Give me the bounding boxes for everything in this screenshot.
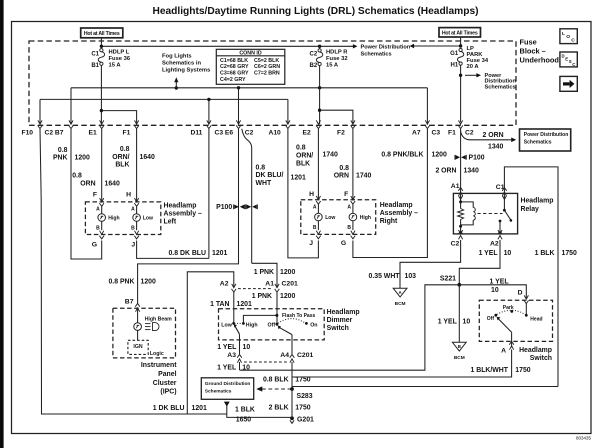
svg-text:Lighting Systems: Lighting Systems [162,67,210,73]
svg-text:A: A [96,206,100,212]
relay coil inductor leg [461,202,474,208]
svg-text:1 PNK: 1 PNK [254,269,274,276]
svg-text:0.35 WHT: 0.35 WHT [368,273,400,280]
pin C1 relay [502,192,506,196]
pin G right headlamp [351,231,355,235]
svg-text:1201: 1201 [291,175,306,182]
wire S221 to switch D [459,285,526,299]
conn id box [216,49,284,84]
svg-text:0.8: 0.8 [120,146,130,153]
fuse F32 HDLP R [318,49,321,52]
svg-text:D: D [518,290,523,297]
svg-text:G: G [341,240,346,247]
svg-text:0.8: 0.8 [72,173,82,180]
connector C201 dashed line (A3-A4) [244,361,287,363]
svg-text:1 PNK: 1 PNK [252,293,272,300]
svg-text:A2: A2 [220,281,229,288]
wire bus1 drop A7 [426,88,428,124]
wire B7 to indicator [137,308,139,323]
svg-text:A: A [501,347,506,354]
relay A1 entry arrow [460,193,462,202]
dimmer arm left (low-a3) [235,326,240,334]
svg-text:Underhood: Underhood [520,56,560,65]
stub hot box right [460,37,462,46]
junction dot fuse32 bus1 [319,87,321,89]
ipc high beam indicator lamp [134,323,142,331]
svg-text:15 A: 15 A [109,63,122,69]
dimmer low contact [232,322,235,325]
wire A2 into dimmer [233,292,235,324]
headlamp dimmer switch dashed box [219,309,325,340]
wire A1 into dimmer [276,292,278,325]
svg-text:L: L [562,31,565,37]
svg-text:IGN: IGN [133,344,142,350]
svg-text:Instrument: Instrument [141,362,177,369]
svg-text:C2: C2 [451,241,460,248]
pin A4 dimmer [290,359,294,363]
dimmer flash dotted arc [278,319,306,324]
svg-text:P100: P100 [469,155,485,162]
svg-text:2 ORN: 2 ORN [435,168,456,175]
svg-text:1650: 1650 [236,417,251,424]
wire C3E6 0.8 PNK 1200 to B7 [138,129,239,304]
svg-text:On: On [310,322,317,328]
svg-text:C2: C2 [465,129,474,136]
junction dot fuse34 branch [459,74,462,77]
connector P100 (pair) [234,205,239,209]
svg-text:C6=2 GRN: C6=2 GRN [254,64,280,70]
svg-text:Dimmer: Dimmer [327,317,353,324]
svg-text:C1: C1 [91,51,99,57]
svg-text:A: A [131,206,135,212]
svg-text:C7=2 BRN: C7=2 BRN [254,71,280,77]
wire dimmer low pivot to A3 [239,334,241,354]
svg-text:0.8 PNK/BLK: 0.8 PNK/BLK [381,151,423,158]
junction dot bus1 fuse32 [318,86,321,89]
switch arm [498,319,511,333]
fuse F34 LP PARK [459,48,462,51]
wire C2B7 0.8 PNK 1200 [71,129,102,259]
pin G left headlamp [100,231,104,235]
svg-text:Headlamp: Headlamp [380,202,413,209]
svg-text:Schematics: Schematics [361,51,392,57]
junction dot bus2 D11 [207,98,210,101]
wire A4 down to S283 [291,362,293,389]
svg-text:1200: 1200 [75,155,90,162]
svg-text:Ground Distribution: Ground Distribution [205,381,251,387]
svg-text:F1: F1 [123,129,131,136]
relay switch arm [504,210,511,220]
bcm triangle B [452,342,466,351]
svg-text:C5=2 BLK: C5=2 BLK [254,58,279,64]
svg-text:10: 10 [504,250,512,257]
wire bus2 drop A10 [287,99,289,124]
relay coil exit [460,226,462,234]
headlamp relay box [453,193,517,234]
pin H left headlamp [135,198,139,202]
svg-text:B7: B7 [125,299,134,306]
svg-text:803435: 803435 [576,435,592,440]
wire E2 0.8 ORN/BLK 1740 [317,129,319,200]
pin F left headlamp [100,198,104,202]
svg-text:BLK: BLK [115,162,129,169]
svg-text:F10: F10 [22,129,34,136]
pin F10 fuse block [38,120,42,124]
svg-text:Low: Low [325,215,335,221]
wire fuse36 branch F1 [101,111,136,125]
svg-text:Low: Low [221,322,232,328]
svg-text:G1: G1 [450,51,459,57]
pin D headlamp switch [524,295,528,299]
svg-text:1200: 1200 [280,269,295,276]
svg-text:Flash To Pass: Flash To Pass [282,313,315,319]
svg-text:Hot at All Times: Hot at All Times [84,31,120,37]
svg-text:20 A: 20 A [467,64,480,70]
svg-text:PNK: PNK [53,155,68,162]
lamp low beam left [136,206,138,214]
junction dot fuse34 top [459,44,462,47]
relay A2 contact [499,220,502,223]
svg-text:1 YEL: 1 YEL [479,250,498,257]
svg-text:1200: 1200 [432,151,447,158]
svg-text:Cluster: Cluster [153,380,177,387]
svg-text:ORN/: ORN/ [112,154,129,161]
svg-text:Switch: Switch [327,325,349,332]
svg-text:Power Distribution: Power Distribution [524,132,568,138]
pin J right headlamp [316,231,320,235]
dimmer on contact [305,322,308,325]
relay mech link dashed [478,213,503,215]
svg-text:A10: A10 [269,129,282,136]
junction dot fog arrow [175,86,178,89]
wire fuse32 branch F2 [320,110,353,124]
wire A7 0.8 PNK/BLK 1200 to right G [353,129,428,258]
svg-text:ORN: ORN [80,181,95,188]
svg-text:HDLP R: HDLP R [326,49,348,55]
svg-text:B: B [458,344,461,349]
wire C2 to A1 dimmer [252,263,277,287]
icon desc box [560,52,577,67]
lamp high beam left [101,206,103,214]
svg-text:10: 10 [463,319,471,326]
svg-text:10: 10 [243,344,251,351]
connector P100 (LP wire) [456,155,461,159]
arrow from power distribution (left) [413,45,416,47]
hot at all times label right [439,28,481,37]
junction dot fuse32 branch F2 [318,109,321,112]
svg-text:F1: F1 [448,129,456,136]
svg-text:A: A [313,205,317,211]
svg-text:HDLP L: HDLP L [109,49,130,55]
pin F1 fuse block [135,120,139,124]
pin J left headlamp [135,231,139,235]
svg-text:0.8 DK BLU: 0.8 DK BLU [168,250,206,257]
wire relay C1 up and right [504,167,558,387]
power distribution schematics box [520,129,571,151]
svg-text:1201: 1201 [212,250,227,257]
svg-text:1 YEL: 1 YEL [217,365,236,372]
svg-text:1340: 1340 [464,168,479,175]
svg-text:J: J [309,240,313,247]
dimmer high riser to A1 [243,315,277,323]
svg-text:Left: Left [164,218,177,225]
svg-text:F2: F2 [337,129,345,136]
svg-text:Off: Off [268,323,276,329]
svg-text:Fog Lights: Fog Lights [162,54,192,60]
wire left J line [137,241,209,259]
arrow to power distribution (right) [352,45,355,47]
dimmer off contact [276,323,279,326]
svg-text:10: 10 [242,365,250,372]
wire fuse32 down [319,66,321,125]
svg-text:H: H [309,191,314,198]
svg-text:F: F [344,191,348,198]
svg-text:Block –: Block – [520,47,546,56]
switch park contact [510,310,513,313]
pin B7 IPC [136,308,140,312]
pin F2 fuse block [351,120,355,124]
svg-text:C4=2 GRY: C4=2 GRY [220,77,246,83]
wire A10 to right J [288,129,319,258]
wire bus1 drop C2B7 [70,88,72,124]
svg-text:Schematics: Schematics [485,85,516,91]
wire hot bus right [414,45,461,47]
svg-text:High Beam: High Beam [145,317,172,323]
svg-text:ORN/: ORN/ [296,153,313,160]
svg-text:Schematics in: Schematics in [162,61,201,67]
svg-text:Relay: Relay [521,206,540,213]
svg-text:Low: Low [143,215,153,221]
svg-text:0.8: 0.8 [339,165,349,172]
arrow 1650 from IPC [224,402,230,407]
wire E1 0.8 ORN 1640 [101,129,103,202]
wire F2 0.8 ORN 1740 [352,129,354,200]
lamp high beam right [352,204,354,213]
pin A2 relay [498,236,502,240]
svg-text:Fuse: Fuse [520,38,537,47]
pin E2 fuse block [316,120,320,124]
svg-text:Switch: Switch [530,355,552,362]
pin F right headlamp [351,196,355,200]
svg-text:B1: B1 [91,63,99,69]
svg-text:1750: 1750 [295,405,310,412]
wire bus to fuse32 [319,46,321,48]
wire F10 1 DK BLU 1201 [40,129,227,414]
connector C201 dashed line (A2-A1) [238,288,272,290]
svg-text:C3 E6: C3 E6 [215,129,234,136]
svg-text:Off: Off [487,316,495,322]
svg-text:Assembly –: Assembly – [380,210,418,217]
pin A3 dimmer [237,359,241,363]
pin E1 fuse block [100,120,104,124]
svg-text:1740: 1740 [323,152,338,159]
wire bus2 drop D11 [208,99,210,124]
hot at all times label left [81,28,123,38]
ipc high beam icon [145,323,151,325]
svg-text:Headlamp: Headlamp [519,347,552,354]
fuse block underhood dashed box [29,41,516,125]
pin H right headlamp [316,196,320,200]
svg-text:A4: A4 [280,352,289,359]
junction dot fuse36 branch F1 [100,109,103,112]
svg-text:0.8 PNK: 0.8 PNK [108,279,134,286]
svg-text:1 YEL: 1 YEL [438,319,457,326]
wire fuse36 down [100,65,102,124]
pin A10 fuse block [286,120,290,124]
svg-text:WHT: WHT [256,180,272,187]
splice S221 [457,283,461,287]
svg-text:BCM: BCM [454,355,465,361]
svg-text:BCM: BCM [395,301,406,307]
svg-text:103: 103 [405,273,417,280]
svg-text:Headlamp: Headlamp [164,203,197,210]
left scan edge bar [0,0,4,448]
wire S283 to G201 [291,389,293,418]
svg-text:A: A [347,205,351,211]
svg-text:G: G [92,241,97,248]
wire D11 0.8 DK BLU 1201 [208,129,210,259]
svg-text:1 TAN: 1 TAN [210,301,229,308]
svg-text:C201: C201 [282,281,298,288]
pin C2B7 fuse block [69,120,73,124]
switch head contact [525,314,528,317]
wire conn C3E6 from bus1 [238,88,240,124]
svg-text:O: O [566,34,570,40]
ipc dashed box [113,308,176,358]
svg-text:ORN: ORN [334,173,349,180]
svg-text:A1: A1 [451,183,460,190]
svg-text:1640: 1640 [105,181,120,188]
svg-text:C201: C201 [297,352,313,359]
wire 1 BLK 1650 line [227,406,292,417]
wire bus2 [40,98,288,100]
svg-text:Fuse 32: Fuse 32 [326,56,348,62]
svg-text:P100: P100 [216,204,232,211]
svg-text:Hot at All Times: Hot at All Times [442,31,478,37]
svg-text:1750: 1750 [515,367,530,374]
svg-text:Schematics: Schematics [524,139,552,145]
headlamp switch dashed box [479,300,552,341]
wire blk line relay C1 to S283 [292,386,558,388]
svg-text:10: 10 [491,287,499,294]
svg-text:High: High [108,215,119,221]
arrow fog lights [175,82,177,89]
pin C2LP fuse block [459,120,463,124]
wire D into switch [525,303,527,316]
svg-text:(IPC): (IPC) [160,389,176,396]
arrow to power distribution schematics (fuse34) [465,74,478,76]
lamp low beam right [317,204,319,213]
junction dot bus1 conn [237,86,240,89]
svg-text:1 BLK: 1 BLK [535,250,555,257]
svg-text:1201: 1201 [192,405,207,412]
fuse F36 HDLP L [100,49,103,52]
svg-text:1 BLK: 1 BLK [235,407,255,414]
dimmer high contact [242,322,245,325]
wire fuse34 down [460,65,462,122]
svg-text:BLK: BLK [296,160,310,167]
svg-text:1340: 1340 [488,144,503,151]
svg-text:E1: E1 [89,129,97,136]
wire A2 dimmer feed [187,272,234,414]
svg-text:B: B [313,225,317,231]
svg-text:C: C [572,62,575,67]
svg-text:1200: 1200 [280,293,295,300]
junction dot fuse36 top [100,45,103,48]
svg-text:E2: E2 [303,129,311,136]
svg-text:1740: 1740 [356,173,371,180]
svg-text:15 A: 15 A [326,63,339,69]
pin C3E6 fuse block [236,120,240,124]
svg-text:C3=68 GRY: C3=68 GRY [220,71,249,77]
icon loc box [560,29,577,44]
svg-text:Fuse 36: Fuse 36 [109,56,131,62]
wire relay A2 to S221 [459,240,500,285]
relay coil resistor leg [459,200,462,203]
svg-text:Headlights/Daytime Running Lig: Headlights/Daytime Running Lights (DRL) … [152,6,478,17]
svg-text:C2: C2 [310,51,318,57]
splice S283 [290,387,294,391]
wire C2 LP pin down [460,129,462,194]
svg-text:C: C [571,37,575,43]
svg-text:0.8 BLK: 0.8 BLK [263,376,289,383]
svg-text:B: B [347,225,351,231]
pin A7 fuse block [425,120,429,124]
stub hot box left [100,38,102,47]
svg-text:Right: Right [380,218,398,225]
svg-text:DK BLU/: DK BLU/ [256,172,284,179]
svg-text:1200: 1200 [141,279,156,286]
svg-text:J: J [131,241,135,248]
svg-text:CONN ID: CONN ID [239,51,262,57]
svg-text:0.8: 0.8 [256,164,266,171]
pin A1 relay [459,192,463,196]
wire F1 0.8 ORN/BLK 1640 [136,129,138,202]
svg-text:0.8: 0.8 [58,147,68,154]
wire dimmer pivot to A4 [291,335,293,355]
svg-text:F: F [93,191,97,198]
svg-text:2 ORN: 2 ORN [483,132,504,139]
wire switch arm to A [511,332,513,347]
svg-text:Logic: Logic [150,351,164,357]
svg-text:G201: G201 [297,416,314,423]
wire hot bus left [101,45,352,47]
svg-text:A3: A3 [227,352,236,359]
wire S221 to BCM B [458,285,460,343]
svg-text:1 YEL: 1 YEL [490,278,509,285]
svg-text:S221: S221 [440,275,456,282]
wire indicator to ign [137,331,139,341]
dashed arrow S283 to ground box [262,388,291,390]
svg-text:Assembly –: Assembly – [164,211,202,218]
wire 2 ORN branch to power dist [461,132,508,140]
dimmer low-high dotted [235,322,243,324]
svg-text:2 BLK: 2 BLK [269,405,289,412]
svg-text:A1: A1 [265,281,274,288]
svg-text:C3: C3 [432,129,441,136]
wire A3 down to yel line [239,362,241,370]
svg-text:Power Distribution: Power Distribution [361,44,411,50]
svg-text:C2=68 GRY: C2=68 GRY [220,64,249,70]
dimmer arm right (off-a4) [279,327,292,334]
svg-text:D11: D11 [191,129,203,136]
svg-text:1750: 1750 [562,250,577,257]
pin A1 dimmer [275,284,279,288]
wire bus2 drop F10 [39,99,41,124]
svg-text:H1: H1 [451,62,459,68]
svg-text:H: H [126,191,131,198]
svg-text:1640: 1640 [140,154,155,161]
